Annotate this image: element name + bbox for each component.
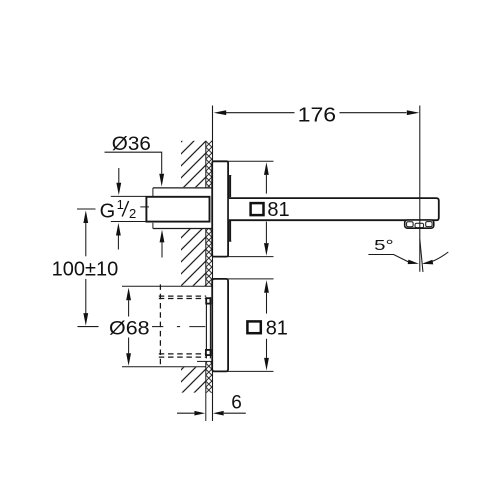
pipe centerline tick [140, 206, 149, 208]
pipe top extension line [111, 195, 146, 197]
rough-in box front plate [206, 297, 211, 358]
wall hole bottom edge [122, 366, 206, 368]
svg-text:1: 1 [117, 197, 124, 212]
spout base marks [229, 175, 231, 241]
escutcheon bottom extension line [213, 370, 274, 372]
svg-text:176: 176 [298, 104, 337, 126]
supply pipe G1/2 [146, 197, 209, 222]
svg-text:G: G [100, 201, 116, 223]
supply cylinder D36 behind wall [153, 188, 212, 229]
wall face line [212, 106, 214, 422]
bottom escutcheon plate [212, 279, 228, 372]
plaster hole bottom step edge [197, 360, 213, 362]
wall hatch middle segment [181, 229, 213, 286]
spout outline [229, 198, 439, 220]
svg-text:81: 81 [266, 318, 288, 340]
dimension 176 [214, 104, 420, 126]
svg-text:2: 2 [129, 206, 136, 221]
wall inner boundary line [205, 141, 207, 421]
svg-text:100±10: 100±10 [52, 258, 119, 280]
dimension square-81 bottom [247, 280, 288, 370]
dimension 5 degrees [368, 238, 448, 272]
plate bottom extension line [213, 256, 274, 258]
dimension 176 right extension line [419, 106, 421, 272]
dimension square-81 top [251, 162, 290, 255]
box centerline [152, 326, 205, 328]
aerator [405, 220, 434, 228]
escutcheon top extension line [213, 278, 274, 280]
dimension D68 [109, 288, 150, 366]
concealed box dashed outline [159, 284, 206, 365]
wall hole top edge [122, 285, 213, 287]
wall hatch top segment [181, 141, 213, 187]
svg-text:81: 81 [267, 199, 289, 221]
svg-text:6: 6 [231, 393, 242, 414]
wall hatch bottom segment [181, 362, 213, 393]
plate top extension line [213, 160, 274, 162]
dimension 100 +-10 [52, 209, 119, 327]
dimension D36 [105, 133, 165, 257]
svg-text:5°: 5° [374, 238, 394, 254]
top wall plate [212, 161, 228, 256]
svg-text:Ø68: Ø68 [109, 317, 150, 339]
dimension 6 [177, 393, 246, 416]
dimension G 1/2 [100, 168, 137, 250]
pipe bottom extension line [111, 221, 146, 223]
